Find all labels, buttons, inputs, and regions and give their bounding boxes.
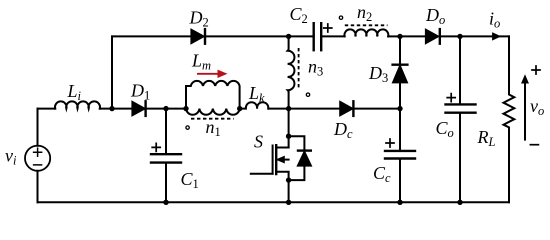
current arrow io on top rail	[493, 33, 500, 40]
svg-text:Cc: Cc	[373, 163, 391, 185]
transistor S gate lead	[251, 173, 273, 175]
wire: D1 cathode to Lm left node through C1 node	[146, 108, 186, 110]
transistor S (MOSFET) drain stub	[276, 147, 288, 149]
svg-text:C2: C2	[290, 4, 308, 26]
dashed coupling line n3	[298, 48, 300, 90]
winding n1 (coupled inductor primary, on main rail)	[186, 109, 240, 115]
wire: n2 to D3 top node	[388, 35, 400, 37]
junction node at C1 top	[163, 106, 168, 111]
svg-text:Co: Co	[436, 118, 454, 140]
svg-text:Do: Do	[425, 5, 445, 27]
junction node at MOSFET source / body-diode branch	[286, 177, 291, 182]
phase dot n2	[339, 16, 342, 19]
svg-text:C1: C1	[181, 169, 199, 191]
inductor Li	[55, 101, 100, 108]
output voltage arrow vo	[524, 81, 526, 140]
svg-text:RL: RL	[477, 127, 496, 149]
junction node at MOSFET drain / body-diode branch	[286, 134, 291, 139]
plus sign of vo	[532, 66, 540, 74]
wire: vi bottom lead	[37, 171, 39, 203]
junction node at Lm/n1 left	[183, 106, 188, 111]
wire: Dc cathode to node at D3/Cc	[353, 108, 400, 110]
transistor S gate bar	[272, 146, 274, 174]
junction node at D3 cathode on top rail	[397, 34, 402, 39]
wire: top rail to D2 anode	[112, 35, 191, 37]
wire: D3 node to Do anode	[400, 35, 426, 37]
minus sign of vo	[530, 144, 538, 146]
svg-text:n2: n2	[357, 2, 372, 24]
svg-text:Lk: Lk	[248, 83, 265, 105]
svg-text:S: S	[254, 132, 263, 152]
diode D3 branch (vertical, pointing up)	[399, 36, 401, 108]
transistor S body stub with arrow	[282, 159, 289, 161]
svg-text:n1: n1	[206, 117, 221, 139]
inductor Lm (magnetizing branch rectangle above n1)	[186, 81, 240, 109]
svg-text:vi: vi	[5, 146, 17, 168]
svg-text:io: io	[489, 9, 500, 31]
phase dot n1	[186, 126, 189, 129]
wire: source vi top lead up to middle rail	[37, 109, 39, 146]
capacitor Co branch	[459, 36, 461, 202]
red magnetizing-current arrow for Lm	[198, 70, 226, 77]
capacitor C2	[313, 23, 315, 50]
dashed coupling line n2	[345, 24, 388, 26]
wire: Lk to switch node	[268, 108, 288, 110]
transistor S source stub and lead to bottom rail	[276, 172, 288, 203]
wire: D2 cathode to C2 left plate	[205, 35, 314, 37]
inductor Lk (leakage)	[240, 102, 269, 108]
plus sign of C2	[324, 24, 332, 32]
wire: vertical from middle rail node up to top rail	[111, 36, 113, 108]
wire: switch node to Dc anode	[289, 108, 340, 110]
wire: middle rail from vi corner to Li	[38, 108, 56, 110]
capacitor Cc branch	[399, 109, 401, 203]
bottom rail	[38, 201, 510, 203]
junction node at Co bottom on ground rail	[457, 200, 462, 205]
svg-text:n3: n3	[308, 57, 323, 79]
junction node at switch source on ground rail	[286, 200, 291, 205]
transistor S channel segments	[275, 145, 277, 174]
resistor RL (load, zigzag)	[504, 36, 515, 202]
junction node at Co top on top rail	[457, 34, 462, 39]
svg-text:Dc: Dc	[333, 119, 353, 141]
wire: switch branch from middle rail down to MOSFET drain	[288, 109, 290, 148]
dashed coupling line n1	[191, 118, 234, 120]
diode Do	[426, 29, 439, 44]
svg-text:D1: D1	[130, 80, 150, 102]
wire: C2 right plate to n2	[321, 35, 344, 37]
svg-text:Li: Li	[67, 81, 82, 103]
diode Dc	[340, 101, 353, 116]
junction node at Li / D2-branch tap	[109, 106, 114, 111]
junction node at Lm/n1 right	[237, 106, 242, 111]
body diode of S (branch right of MOSFET)	[289, 136, 305, 180]
wire: Do cathode to output corner with io arrow	[440, 35, 509, 37]
junction node at Dc cathode / D3 anode / Cc top	[397, 106, 402, 111]
winding n2 (coupled inductor secondary, on top rail)	[344, 29, 388, 36]
plus sign of C1	[152, 143, 160, 151]
svg-text:D2: D2	[189, 7, 209, 29]
diode D1	[132, 101, 145, 116]
junction node at Cc bottom on ground rail	[397, 200, 402, 205]
svg-text:D3: D3	[368, 63, 388, 85]
svg-text:Lm: Lm	[191, 51, 211, 73]
capacitor C1 branch	[165, 109, 167, 203]
phase dot n3	[306, 93, 309, 96]
wire: Li to D1 anode through node at x=112	[100, 108, 132, 110]
diode D2	[191, 29, 204, 44]
junction node at n3 top on top rail	[286, 34, 291, 39]
junction node at C1 bottom on ground rail	[163, 200, 168, 205]
plus sign of Co	[447, 94, 455, 102]
plus sign of Cc	[386, 139, 394, 147]
svg-text:vo: vo	[530, 96, 544, 118]
source vi (circle)	[25, 146, 50, 171]
winding n3 (vertical tertiary winding)	[288, 36, 295, 108]
junction node at n3 bottom / switch top	[286, 106, 291, 111]
